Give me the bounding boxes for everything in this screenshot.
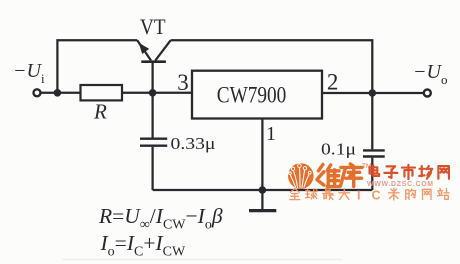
wire base drop to cap: [151, 62, 153, 138]
svg-text:WWW.DZSC.COM: WWW.DZSC.COM: [367, 181, 434, 188]
watermark slogan row: [290, 189, 300, 200]
svg-text:CW7900: CW7900: [217, 82, 286, 107]
output terminal -Uo: [424, 90, 431, 97]
wire resistor to pin3: [122, 92, 192, 94]
watermark logo circle: [288, 163, 314, 189]
wire bottom rail: [153, 189, 373, 191]
resistor R: [81, 85, 123, 100]
svg-text:I: I: [357, 188, 360, 202]
node B junction base: [149, 89, 157, 97]
input terminal -Ui: [34, 89, 41, 96]
node C junction output: [369, 89, 377, 97]
op-amp U1 CW7900 box: [192, 71, 322, 119]
node A junction input: [54, 89, 62, 97]
wire cap1 to bottom: [151, 147, 153, 190]
transistor VT: [137, 40, 171, 62]
watermark text weiku: [317, 164, 340, 187]
wire cap2 to bottom: [371, 158, 373, 190]
pin 1 wire: [261, 119, 263, 191]
svg-text:2: 2: [327, 69, 339, 94]
wire top collector to right riser: [171, 40, 373, 149]
svg-text:C: C: [372, 188, 381, 202]
svg-text:3: 3: [177, 70, 189, 95]
svg-text:0.33μ: 0.33μ: [171, 134, 216, 153]
wire left riser to top: [57, 40, 137, 93]
capacitor C2 0.1u: [363, 150, 385, 156]
node D junction ground: [259, 186, 267, 194]
wire pin2 to output: [322, 92, 424, 94]
watermark text dianzishichangwang: [370, 165, 380, 176]
svg-text:1: 1: [266, 123, 276, 145]
svg-text:VT: VT: [140, 14, 166, 39]
svg-text:R: R: [93, 100, 107, 124]
svg-text:0.1μ: 0.1μ: [321, 140, 356, 159]
capacitor C1 0.33u: [140, 139, 167, 146]
wire input to resistor: [41, 92, 81, 94]
ground: [249, 190, 276, 211]
